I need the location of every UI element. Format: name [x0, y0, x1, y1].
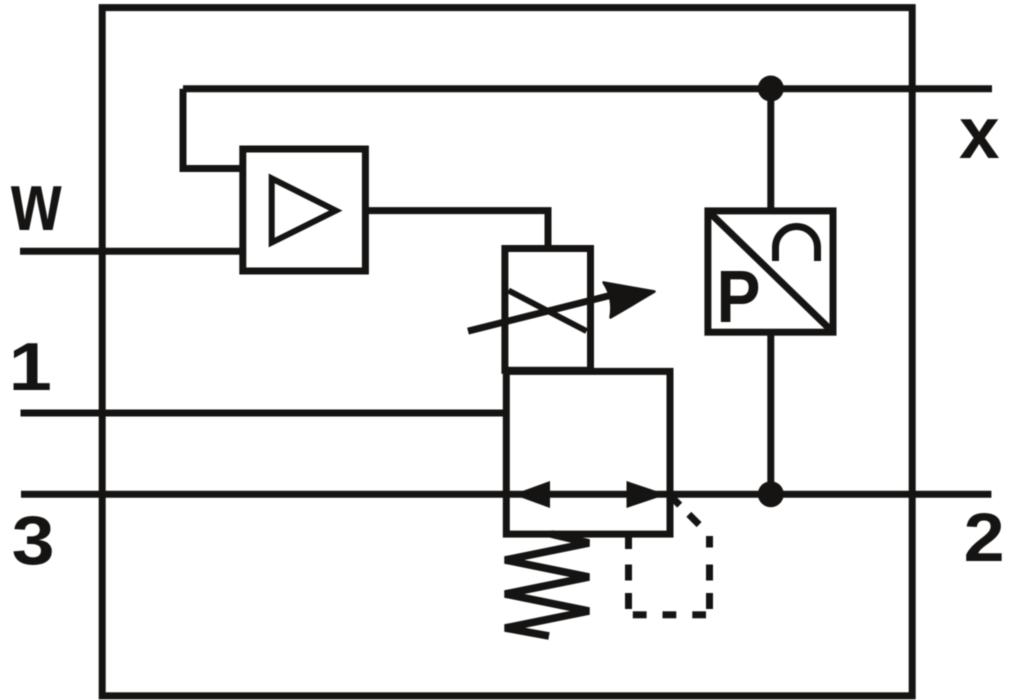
svg-text:1: 1 — [9, 330, 52, 405]
wire sensor lower to main line — [767, 332, 774, 494]
svg-text:w: w — [10, 155, 62, 248]
wire pilot line x — [183, 85, 992, 92]
valve housing enclosure — [102, 8, 912, 696]
wire feedback branch to amplifier — [183, 89, 243, 169]
svg-text:P: P — [717, 255, 761, 338]
sensor arc — [776, 227, 818, 262]
spring — [505, 534, 589, 636]
proportional solenoid box — [505, 249, 591, 371]
junction dot x line — [758, 76, 784, 102]
svg-text:3: 3 — [12, 502, 55, 579]
dashed linkage box — [629, 497, 710, 615]
wire port 1 lead — [21, 410, 507, 417]
wire main line port 3 to port 2 — [21, 491, 991, 498]
flow arrow right — [627, 481, 667, 508]
junction dot main line — [758, 481, 784, 507]
solenoid cross stroke — [509, 291, 587, 332]
adjustment arrow — [468, 283, 655, 332]
amplifier box — [243, 149, 366, 271]
amplifier triangle — [272, 178, 336, 242]
wire junction to sensor upper — [767, 89, 774, 211]
pressure sensor box — [708, 211, 833, 332]
main valve body box — [506, 371, 670, 534]
sensor diagonal — [708, 211, 833, 332]
svg-text:2: 2 — [964, 499, 1005, 576]
flow arrow left — [513, 481, 550, 508]
wire amplifier output to solenoid — [365, 211, 548, 249]
wire port w lead — [20, 248, 243, 255]
svg-text:x: x — [959, 93, 1000, 174]
